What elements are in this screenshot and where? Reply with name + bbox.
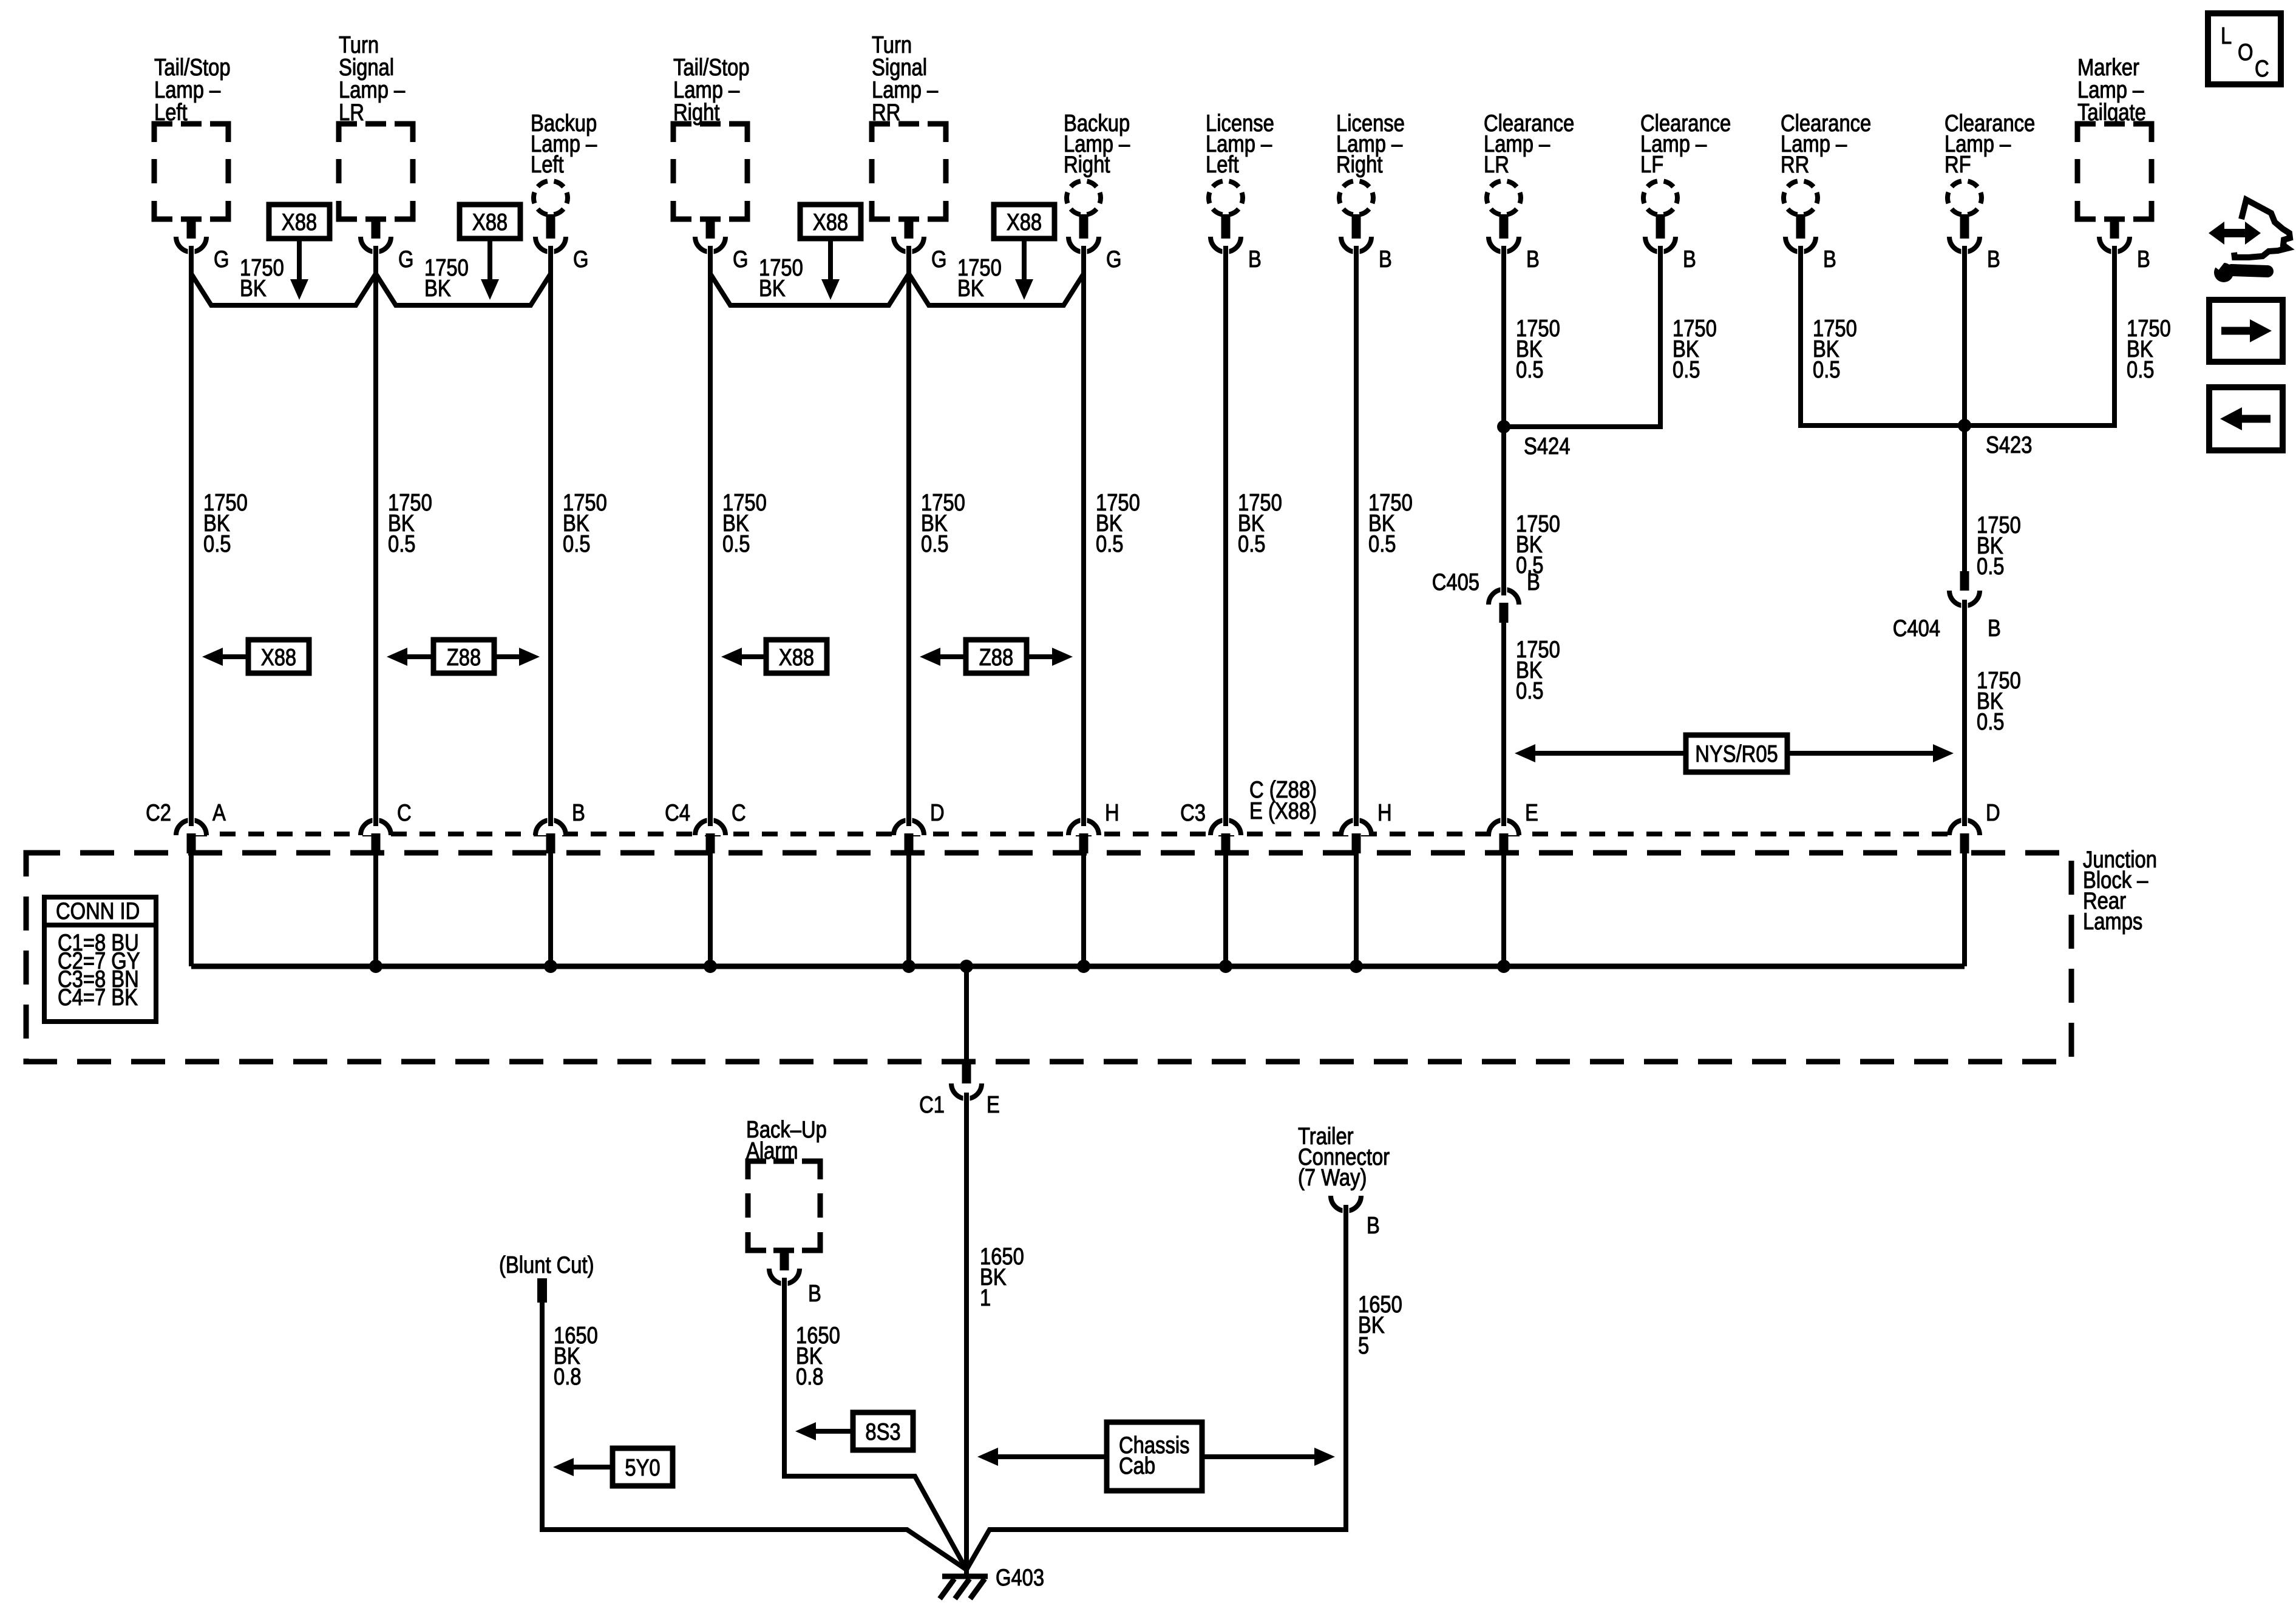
junction block connector pin stub at x=1497 (905, 833, 914, 853)
bus junction dot at x=2477 (1497, 960, 1510, 973)
connector at Marker Lamp - Tailgate: pin stub (2110, 217, 2119, 239)
svg-text:E: E (987, 1091, 1000, 1117)
connector C1: cup (951, 1083, 982, 1099)
bus junction dot at x=1785 (1077, 960, 1090, 973)
svg-text:Z88: Z88 (447, 643, 481, 670)
svg-text:B: B (1527, 568, 1540, 595)
arrow from NYS/R05 box toward wire D (1787, 751, 1933, 756)
junction block connector pin stub at x=3236 (1960, 833, 1969, 853)
wire: 1650 BK 1 from C1 to G403 (964, 1093, 969, 1577)
wire: 1750 BK 0.5 from C405 to junction block pin E (1501, 623, 1506, 823)
svg-text:S423: S423 (1986, 431, 2032, 458)
svg-text:E: E (1525, 799, 1538, 825)
circuit code box X88 (right pair) (766, 640, 827, 673)
svg-text:G: G (733, 245, 748, 272)
wire: 1650 BK 0.8 blunt cut to G403 (542, 1303, 966, 1570)
svg-text:BK: BK (424, 274, 451, 301)
connector at Backup Lamp - Right: pin stub (1079, 214, 1089, 239)
next-page arrow box (2209, 300, 2283, 362)
connector at License Lamp - Right: pin stub (1352, 214, 1361, 239)
svg-text:8S3: 8S3 (865, 1418, 900, 1445)
connector at Turn Signal Lamp - RR: cup (894, 237, 924, 252)
svg-text:0.8: 0.8 (796, 1363, 824, 1389)
svg-text:G: G (573, 245, 588, 272)
wire: 1750 BK 0.5 from Backup Lamp - Right to junction block (1081, 246, 1086, 823)
blunt cut end cap (537, 1278, 547, 1303)
wire: 1650 BK 5 from Trailer Connector to G403 (966, 1205, 1346, 1570)
junction block - rear lamps (dashed border) (26, 853, 2071, 1062)
svg-text:G: G (398, 245, 413, 272)
connector C404: pin stub (1960, 571, 1969, 591)
svg-text:0.8: 0.8 (554, 1363, 582, 1389)
arrow from X88 box into harness (828, 239, 833, 279)
svg-text:1: 1 (980, 1284, 991, 1310)
connector at Clearance Lamp - LF: pin stub (1656, 214, 1665, 239)
wire inside junction block at x=619 (373, 852, 378, 966)
svg-text:Lamps: Lamps (2083, 907, 2142, 934)
wire tip into junction connector at x=907 (548, 807, 553, 826)
wire tip into junction connector at x=2477 (1501, 807, 1506, 826)
connector at License Lamp - Left: cup (1211, 237, 1241, 252)
svg-text:B: B (1683, 245, 1696, 272)
svg-text:G: G (214, 245, 229, 272)
junction block connector dome at x=2234 (1341, 820, 1371, 835)
wire: 1750 BK 0.5 from S423 to C404 (1962, 425, 1967, 573)
junction block connector dome at x=315 (176, 820, 206, 835)
svg-text:0.5: 0.5 (563, 530, 591, 557)
lamp Clearance Lamp - RR (dashed bulb circle) (1784, 181, 1818, 215)
junction block connector dome at x=907 (535, 820, 566, 835)
wire: harness trough between x=1170 and x=1497 (710, 274, 909, 305)
circuit code box X88 (left pair) (248, 640, 309, 673)
svg-text:BK: BK (957, 274, 984, 301)
junction block connector pin stub at x=2477 (1500, 833, 1509, 853)
arrow from 5Y0 to blunt cut wire (574, 1465, 613, 1470)
junction block connector pin stub at x=619 (372, 833, 381, 853)
junction block connector dome at x=1170 (695, 820, 725, 835)
wire inside junction block at x=3236 (1962, 852, 1967, 966)
arrow from Z88 to Backup Left wire (494, 654, 519, 659)
connector at License Lamp - Right: cup (1341, 237, 1371, 252)
wire: 1750 BK 0.5 Clearance RR to S423 (1801, 246, 1965, 425)
connector C405: pin stub (1500, 603, 1509, 623)
svg-text:B: B (1823, 245, 1836, 272)
junction block connector dome at x=3236 (1949, 820, 1980, 835)
wire inside junction block at x=2234 (1354, 852, 1359, 966)
svg-text:0.5: 0.5 (921, 530, 949, 557)
wire: 1750 BK 0.5 from Tail/Stop Lamp - Left to junction block (189, 246, 194, 823)
arrow from X88 to Tail/Stop Right wire (742, 654, 766, 659)
svg-text:RF: RF (1944, 151, 1971, 177)
junction block internal ground bus (191, 964, 1965, 969)
arrow from Chassis Cab to trailer wire (1202, 1454, 1314, 1459)
connector at Clearance Lamp - LF: cup (1645, 237, 1676, 252)
wire inside junction block at x=1785 (1081, 852, 1086, 966)
arrow from NYS/R05 box toward wire E (1535, 751, 1686, 756)
wire tip into junction connector at x=1785 (1081, 807, 1086, 826)
connector at Back-Up Alarm: cup (769, 1269, 800, 1284)
lamp Clearance Lamp - LR (dashed bulb circle) (1487, 181, 1521, 215)
svg-text:B: B (1367, 1212, 1380, 1238)
component-view icon (vehicle outline, double arrow, wrench) (2209, 200, 2290, 282)
svg-text:C: C (2255, 55, 2269, 81)
svg-text:(7 Way): (7 Way) (1298, 1164, 1367, 1190)
previous-page arrow box (2209, 387, 2283, 450)
svg-text:Z88: Z88 (979, 643, 1013, 670)
connector C1: pin stub (962, 1063, 971, 1083)
wire: 1750 BK 0.5 from Clearance RF cup to S423 (1962, 246, 1967, 425)
svg-text:G: G (1106, 245, 1121, 272)
svg-text:O: O (2238, 38, 2253, 65)
svg-text:D: D (930, 799, 945, 825)
svg-text:CONN ID: CONN ID (56, 897, 140, 924)
CONN ID table (44, 897, 156, 1022)
svg-text:NYS/R05: NYS/R05 (1695, 740, 1778, 767)
junction block connector pin stub at x=2019 (1221, 833, 1231, 853)
wire: 1750 BK 0.5 from S424 to C405 (1501, 427, 1506, 594)
bus junction dot at x=1592 (960, 960, 973, 973)
junction block connector pin stub at x=1785 (1079, 833, 1089, 853)
svg-text:RR: RR (1781, 151, 1809, 177)
svg-text:E (X88): E (X88) (1249, 797, 1317, 824)
connector at Clearance Lamp - LR: cup (1489, 237, 1519, 252)
wire: 1750 BK 0.5 from Turn Signal Lamp - LR to junction block (373, 246, 378, 823)
circuit code box Z88 (433, 640, 494, 673)
bus junction dot at x=2234 (1350, 960, 1363, 973)
wire: 1750 BK 0.5 Clearance LF to S424 (1504, 246, 1660, 427)
arrow from X88 box into harness (487, 239, 492, 279)
wire inside junction block at x=315 (189, 852, 194, 966)
LOC legend box (2208, 13, 2281, 84)
junction block connector dome at x=1497 (894, 820, 924, 835)
lamp License Lamp - Right (dashed bulb circle) (1339, 181, 1373, 215)
svg-text:X88: X88 (282, 208, 317, 235)
junction block connector dome at x=2477 (1489, 820, 1519, 835)
svg-text:C2: C2 (146, 799, 171, 825)
junction block connector dome at x=2019 (1211, 820, 1241, 835)
bus junction dot at x=907 (544, 960, 557, 973)
svg-text:Left: Left (531, 151, 564, 177)
bus junction dot at x=1170 (704, 960, 717, 973)
svg-text:0.5: 0.5 (1096, 530, 1124, 557)
svg-text:Cab: Cab (1119, 1452, 1155, 1479)
connector at Tail/Stop Lamp - Left: cup (176, 237, 206, 252)
arrow from Z88 to Backup Right wire (1027, 654, 1052, 659)
svg-text:G: G (931, 245, 946, 272)
svg-text:Left: Left (1206, 151, 1239, 177)
junction block connector pin stub at x=907 (546, 833, 555, 853)
wire: 1750 BK 0.5 from License Lamp - Left to junction block (1223, 246, 1228, 823)
wire inside junction block at x=2477 (1501, 852, 1506, 966)
svg-text:X88: X88 (472, 208, 508, 235)
junction block connector pin stub at x=315 (187, 833, 196, 853)
arrow from Chassis Cab to C1 ground wire (998, 1454, 1107, 1459)
svg-text:A: A (212, 799, 226, 825)
connector at Turn Signal Lamp - LR: cup (361, 237, 391, 252)
svg-text:B: B (1526, 245, 1540, 272)
wire: bus tap down to connector C1 (964, 966, 969, 1063)
wire tip into junction connector at x=1170 (708, 807, 713, 826)
circuit code box 5Y0 (613, 1448, 673, 1486)
wire: 1750 BK 0.5 from C404 to junction block pin D (1962, 600, 1967, 823)
connector at Clearance Lamp - RR: cup (1785, 237, 1816, 252)
bus junction dot at x=619 (369, 960, 382, 973)
bus junction dot at x=1497 (902, 960, 915, 973)
svg-text:C3: C3 (1180, 799, 1206, 825)
svg-text:G403: G403 (996, 1564, 1044, 1590)
svg-text:B: B (1987, 245, 2000, 272)
arrow from X88 box into harness (1022, 239, 1027, 279)
connector at Backup Lamp - Right: cup (1068, 237, 1099, 252)
svg-text:0.5: 0.5 (1516, 356, 1544, 382)
destination box Chassis Cab (1107, 1422, 1202, 1491)
svg-text:0.5: 0.5 (1368, 530, 1396, 557)
svg-text:0.5: 0.5 (1238, 530, 1266, 557)
junction block connector pin stub at x=2234 (1352, 833, 1361, 853)
lamp Turn Signal Lamp - LR (dashed box) (339, 124, 413, 219)
svg-text:C: C (397, 799, 412, 825)
svg-text:B: B (572, 799, 585, 825)
connector at Tail/Stop Lamp - Left: pin stub (187, 217, 196, 239)
connector at Trailer Connector: cup (1331, 1196, 1361, 1211)
splice S424 (1497, 420, 1510, 433)
wire inside junction block at x=907 (548, 852, 553, 966)
svg-text:H: H (1105, 799, 1119, 825)
svg-text:B: B (1988, 614, 2001, 641)
lamp Tail/Stop Lamp - Right (dashed box) (673, 124, 747, 219)
connector at Clearance Lamp - RF: pin stub (1960, 214, 1969, 239)
connector at Clearance Lamp - LR: pin stub (1500, 214, 1509, 239)
svg-text:BK: BK (240, 274, 267, 301)
svg-text:LF: LF (1640, 151, 1663, 177)
wire: harness trough between x=1497 and x=1785 (909, 274, 1084, 305)
svg-text:B: B (1248, 245, 1262, 272)
svg-text:0.5: 0.5 (1977, 708, 2005, 734)
lamp Clearance Lamp - LF (dashed bulb circle) (1643, 181, 1677, 215)
svg-text:X88: X88 (1007, 208, 1042, 235)
svg-text:0.5: 0.5 (1673, 356, 1700, 382)
ground G403 symbol (940, 1576, 988, 1599)
harness code box X88 (460, 205, 520, 239)
wire tip into junction connector at x=3236 (1962, 807, 1967, 826)
svg-text:D: D (1986, 799, 2000, 825)
wire: harness trough between x=619 and x=907 (376, 274, 551, 305)
circuit code box 8S3 (853, 1412, 913, 1450)
wire tip into junction connector at x=1497 (906, 807, 911, 826)
svg-text:X88: X88 (813, 208, 848, 235)
connector at Tail/Stop Lamp - Right: pin stub (706, 217, 715, 239)
svg-text:X88: X88 (779, 643, 814, 670)
svg-text:0.5: 0.5 (1813, 356, 1841, 382)
svg-text:B: B (1379, 245, 1392, 272)
svg-text:Right: Right (1336, 151, 1382, 177)
connector at Backup Lamp - Left: pin stub (546, 214, 555, 239)
wire: 1750 BK 0.5 from Backup Lamp - Left to junction block (548, 246, 553, 823)
wire tip into junction connector at x=619 (373, 807, 378, 826)
svg-text:H: H (1377, 799, 1392, 825)
arrow from 8S3 to Back-Up Alarm wire (816, 1429, 853, 1434)
svg-text:(Blunt Cut): (Blunt Cut) (499, 1251, 594, 1278)
harness code box X88 (269, 205, 330, 239)
svg-text:C4: C4 (665, 799, 690, 825)
wire: 1750 BK 0.5 Marker Tailgate to S423 (1965, 246, 2114, 425)
junction block connector dome at x=1785 (1068, 820, 1099, 835)
junction block connector face (dotted line) (191, 832, 1965, 836)
bus junction dot at x=2019 (1219, 960, 1232, 973)
option code box NYS/R05 (1686, 735, 1787, 772)
lamp Backup Lamp - Left (dashed bulb circle) (534, 181, 568, 215)
lamp Turn Signal Lamp - RR (dashed box) (872, 124, 946, 219)
svg-text:5Y0: 5Y0 (625, 1454, 660, 1480)
connector at Tail/Stop Lamp - Right: cup (695, 237, 725, 252)
connector C404: cup (1949, 591, 1980, 606)
svg-text:0.5: 0.5 (2127, 356, 2155, 382)
connector at Clearance Lamp - RR: pin stub (1796, 214, 1805, 239)
connector at Backup Lamp - Left: cup (535, 237, 566, 252)
svg-text:Right: Right (1064, 151, 1110, 177)
wire: harness trough between x=315 and x=619 (191, 274, 376, 305)
harness code box X88 (800, 205, 861, 239)
wire inside junction block at x=1497 (906, 852, 911, 966)
wire: 1750 BK 0.5 from License Lamp - Right to junction block (1354, 246, 1359, 823)
connector at Clearance Lamp - RF: cup (1949, 237, 1980, 252)
svg-text:C404: C404 (1893, 614, 1940, 641)
svg-text:X88: X88 (261, 643, 296, 670)
wire: 1750 BK 0.5 from Tail/Stop Lamp - Right to junction block (708, 246, 713, 823)
wire inside junction block at x=1170 (708, 852, 713, 966)
connector at Turn Signal Lamp - LR: pin stub (372, 217, 381, 239)
junction block connector pin stub at x=1170 (706, 833, 715, 853)
wire tip into C405 (1501, 571, 1506, 595)
arrow from Z88 to Turn Signal LR wire (407, 654, 433, 659)
wire: 1750 BK 0.5 from Turn Signal Lamp - RR to junction block (906, 246, 911, 823)
svg-text:B: B (808, 1280, 821, 1306)
wire tip into junction connector at x=315 (189, 807, 194, 826)
wire inside junction block at x=2019 (1223, 852, 1228, 966)
svg-text:0.5: 0.5 (1516, 677, 1544, 703)
svg-text:B: B (2137, 245, 2150, 272)
svg-text:C: C (732, 799, 746, 825)
connector at Turn Signal Lamp - RR: pin stub (905, 217, 914, 239)
svg-text:0.5: 0.5 (1977, 552, 2005, 579)
lamp Backup Lamp - Right (dashed bulb circle) (1067, 181, 1101, 215)
svg-text:LR: LR (1484, 151, 1509, 177)
arrow from X88 to Tail/Stop Left wire (223, 654, 248, 659)
svg-text:C1: C1 (919, 1091, 945, 1117)
arrow from X88 box into harness (297, 239, 302, 279)
harness code box X88 (994, 205, 1055, 239)
svg-text:C4=7 BK: C4=7 BK (58, 983, 138, 1010)
wire tip into junction connector at x=2019 (1223, 807, 1228, 826)
lamp License Lamp - Left (dashed bulb circle) (1209, 181, 1243, 215)
svg-text:5: 5 (1358, 1332, 1369, 1358)
svg-text:BK: BK (759, 274, 786, 301)
arrow from Z88 to Turn Signal RR wire (940, 654, 966, 659)
lamp Clearance Lamp - RF (dashed bulb circle) (1948, 181, 1982, 215)
splice S423 (1958, 419, 1971, 432)
svg-text:L: L (2221, 22, 2232, 49)
connector at License Lamp - Left: pin stub (1221, 214, 1231, 239)
wire: 1650 BK 0.8 from Back-Up Alarm to G403 (784, 1278, 966, 1570)
connector at Marker Lamp - Tailgate: cup (2099, 237, 2130, 252)
connector at Back-Up Alarm: pin stub (780, 1249, 789, 1270)
svg-text:C405: C405 (1432, 568, 1479, 595)
svg-text:0.5: 0.5 (722, 530, 750, 557)
lamp Marker Lamp - Tailgate (dashed box) (2077, 124, 2152, 219)
svg-text:0.5: 0.5 (203, 530, 231, 557)
svg-text:0.5: 0.5 (388, 530, 416, 557)
lamp Tail/Stop Lamp - Left (dashed box) (154, 124, 228, 219)
svg-text:S424: S424 (1524, 432, 1570, 459)
wire: 1750 BK 0.5 Clearance LR to S424 (1501, 246, 1506, 427)
circuit code box Z88 (right) (966, 640, 1027, 673)
junction block connector dome at x=619 (361, 820, 391, 835)
wire tip into junction connector at x=2234 (1354, 807, 1359, 826)
connector C405: dome (1489, 589, 1519, 605)
Back-Up Alarm (dashed box) (748, 1161, 820, 1250)
